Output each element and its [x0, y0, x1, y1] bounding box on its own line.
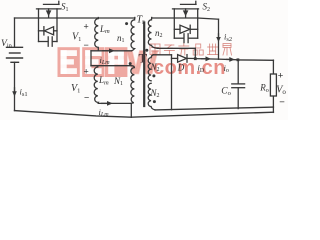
watermark EEPW tile P [105, 47, 127, 77]
primary winding n1 [131, 18, 135, 51]
battery Vin [7, 18, 23, 111]
polarity dot n2 [145, 49, 148, 52]
svg-text:S2: S2 [203, 2, 211, 13]
transformer core [143, 23, 145, 107]
S2 snubber box: antiparallel diode [174, 18, 197, 38]
svg-text:−: − [84, 40, 89, 50]
magnetizing inductance Lm (lower) [94, 66, 98, 104]
wire top rail from battery to S1 [15, 17, 58, 19]
wire section bottom (upper) with iLm arrow [91, 48, 132, 53]
wire primary-to-output return (bottom under-line) [131, 103, 273, 117]
svg-text:Lm: Lm [99, 24, 110, 35]
switch S1 MOSFET [37, 1, 61, 18]
watermark EEPW tile E2 [82, 47, 104, 77]
S1 snubber box: parallel capacitor [39, 37, 58, 46]
wire rectified output with iD arrow [195, 56, 218, 61]
S1 snubber box: antiparallel diode [39, 18, 58, 42]
load resistor RL [270, 74, 276, 96]
magnetizing inductance Lm (upper) [95, 18, 99, 51]
current arrow is2 [216, 34, 221, 42]
wire to load and right terminal [238, 60, 274, 113]
svg-text:D: D [177, 63, 185, 73]
switch S2 MOSFET [173, 1, 199, 18]
wire output node to Co junction with io arrow [219, 57, 238, 62]
S2 snubber box: parallel capacitor [174, 34, 197, 43]
svg-text:is1: is1 [20, 87, 28, 98]
svg-text:Vo: Vo [276, 85, 286, 97]
svg-text:n1: n1 [117, 33, 125, 44]
svg-text:n2: n2 [155, 28, 163, 39]
wire top rail S1 to transformer primary [57, 17, 135, 19]
svg-text:Ro: Ro [259, 83, 269, 94]
svg-text:+: + [84, 67, 89, 77]
output capacitor Co [232, 60, 245, 109]
svg-text:−: − [279, 97, 285, 108]
wire n2 bottom to output junction [158, 48, 196, 58]
svg-text:V1: V1 [72, 32, 81, 44]
wire section bottom (lower) with iLm arrow [99, 101, 132, 106]
polarity dot n1 [125, 22, 128, 25]
wire secondary loop top and right side [154, 55, 172, 110]
svg-text:+: + [278, 70, 284, 81]
junction node (n2 to rectifier wire) [194, 57, 197, 60]
secondary winding N2 (lower) [148, 83, 155, 110]
wire series connector between primary sections [90, 51, 92, 66]
polarity dot N2 lower [153, 100, 156, 103]
wire secondary bottom rail [155, 107, 273, 110]
watermark EEPW tile E1 [58, 47, 80, 77]
wire top rail n2 to S2 [152, 17, 197, 19]
secondary winding n2 [148, 18, 157, 49]
svg-text:Vin: Vin [1, 39, 13, 50]
svg-text:+: + [84, 22, 89, 32]
primary winding N1 [131, 66, 135, 104]
svg-text:N2: N2 [150, 88, 160, 99]
svg-text:Tr: Tr [137, 15, 146, 27]
secondary winding N2 (upper) [148, 55, 153, 81]
polarity dot N1 [129, 62, 132, 65]
svg-text:−: − [84, 93, 89, 103]
svg-text:is2: is2 [224, 32, 232, 43]
junction node Co tap [237, 58, 240, 61]
wire S2 to output node [198, 18, 219, 59]
svg-text:S1: S1 [61, 2, 69, 13]
svg-text:io: io [224, 63, 229, 74]
wire battery return rail [15, 111, 132, 118]
diode D [172, 55, 196, 63]
watermark chinese characters row [150, 44, 232, 56]
svg-text:com.cn: com.cn [153, 57, 226, 79]
svg-text:N1: N1 [113, 76, 123, 87]
svg-text:T: T [139, 51, 148, 66]
polarity dot N2 upper [152, 74, 155, 77]
wire section top (lower) [91, 65, 132, 67]
svg-text:Co: Co [221, 87, 231, 97]
svg-text:V1: V1 [71, 83, 80, 95]
current arrow is1 [12, 88, 17, 97]
